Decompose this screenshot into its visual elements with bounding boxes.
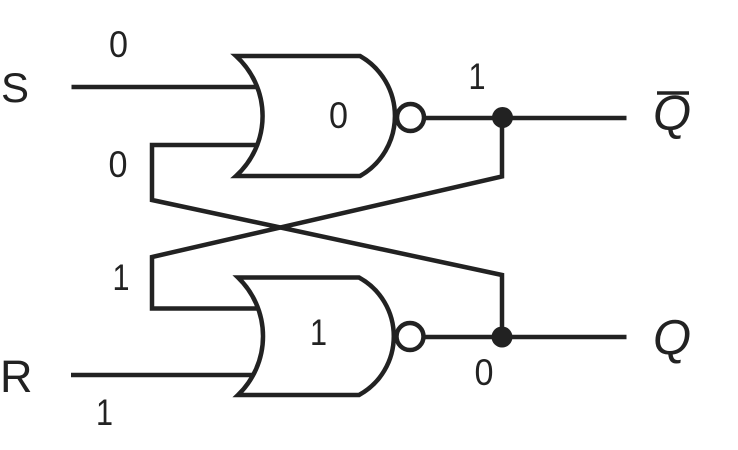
wire top output to Qbar: [424, 116, 627, 121]
svg-text:0: 0: [109, 144, 128, 185]
overbar of Qbar: [657, 91, 689, 94]
svg-text:1: 1: [310, 312, 327, 353]
svg-text:1: 1: [113, 257, 130, 298]
svg-text:1: 1: [96, 392, 113, 433]
svg-text:S: S: [1, 64, 29, 111]
NOR gate body U2 (bottom): [238, 278, 394, 396]
svg-text:0: 0: [109, 24, 128, 65]
junction node Q: [492, 327, 513, 348]
wire feedback from node Qbar to bottom gate input: [152, 118, 502, 309]
wire R input: [71, 373, 262, 378]
junction node Qbar: [492, 107, 513, 128]
wire bottom output to Q: [424, 335, 627, 340]
svg-text:1: 1: [469, 56, 486, 97]
svg-text:0: 0: [329, 95, 348, 136]
inversion bubble U1: [397, 104, 424, 131]
wire feedback from node Q to top gate input: [152, 145, 502, 337]
svg-text:Q: Q: [653, 311, 691, 365]
svg-text:R: R: [0, 351, 33, 402]
inversion bubble U2: [397, 323, 424, 350]
svg-text:0: 0: [475, 352, 494, 393]
wire S input: [72, 85, 263, 90]
NOR gate body U1 (top): [236, 56, 395, 176]
